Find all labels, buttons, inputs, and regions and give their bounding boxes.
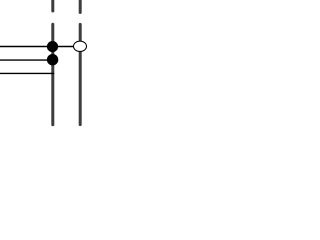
wire: horizontal lead tying into left bus xyxy=(0,72,54,74)
wire: right vertical bus, upper segment xyxy=(79,0,82,13)
wire: horizontal lead into junction B xyxy=(0,59,53,61)
junction A: solid node on left bus xyxy=(47,41,58,52)
wire: left vertical bus, upper segment xyxy=(51,0,54,11)
node C: open terminal on right bus xyxy=(74,41,87,51)
wire: horizontal lead into junction A xyxy=(0,46,73,48)
wire: left vertical bus, lower segment xyxy=(51,24,54,124)
wire: right vertical bus, lower segment xyxy=(79,24,82,124)
junction B: solid node on left bus xyxy=(47,54,58,65)
